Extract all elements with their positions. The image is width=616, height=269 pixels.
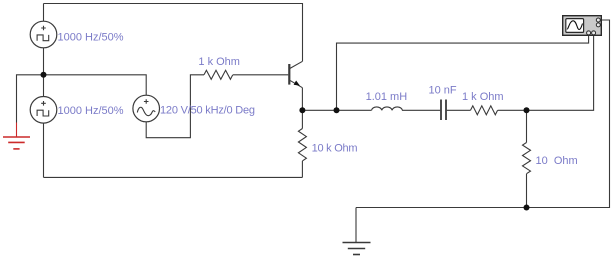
wire emitter node to node B — [302, 109, 336, 111]
wire V1 bottom lead to node A — [43, 48, 45, 75]
node emitter junction dot — [299, 107, 305, 113]
resistor R2 1k — [471, 106, 498, 115]
wire L1 to C1 — [402, 109, 440, 111]
wire bottom left rail — [44, 176, 303, 178]
inductor L1 — [372, 107, 403, 110]
node B junction dot — [334, 107, 340, 113]
wire node B to L1 — [337, 109, 372, 111]
svg-text:1 k Ohm: 1 k Ohm — [198, 56, 240, 68]
svg-text:10 nF: 10 nF — [429, 85, 457, 97]
svg-text:1.01 mH: 1.01 mH — [366, 91, 408, 103]
wire V1 top lead — [43, 4, 45, 22]
svg-text:1000 Hz/50%: 1000 Hz/50% — [58, 105, 124, 117]
capacitor C1 — [441, 100, 446, 121]
wire top rail from V1 to Q1 collector — [44, 4, 303, 62]
oscilloscope XSC1 — [563, 16, 602, 36]
pulse source V2 — [30, 97, 57, 124]
wire 10 Ohm top lead — [526, 110, 528, 142]
wire 10 Ohm bottom lead to node D — [526, 174, 528, 208]
wire node C to scope terminal B — [527, 35, 594, 110]
wire 10k top lead — [301, 110, 303, 128]
wire node A left to ground branch — [17, 75, 44, 123]
node D junction dot — [524, 205, 530, 211]
resistor R3 10k (emitter) — [298, 129, 306, 161]
wire V2 top lead — [43, 75, 45, 97]
sine source V3 — [133, 95, 160, 122]
wire R2 to node C — [498, 109, 527, 111]
node C junction dot — [524, 107, 530, 113]
transistor Q1 — [289, 61, 302, 87]
wire node B up to scope terminal A — [337, 35, 589, 110]
wire C1 to R2 — [447, 109, 471, 111]
wire 10k bottom lead — [301, 161, 303, 177]
ground (red) left — [3, 123, 30, 149]
resistor R4 10 Ohm — [523, 143, 531, 174]
wire bottom right rail — [356, 20, 610, 208]
wire V3 bottom loop to R1 left — [146, 75, 204, 138]
node A junction dot — [41, 72, 47, 78]
resistor R1 1k (base) — [204, 70, 233, 79]
svg-text:1000 Hz/50%: 1000 Hz/50% — [58, 32, 124, 44]
pulse source V1 — [30, 21, 57, 48]
svg-text:10 Ohm: 10 Ohm — [536, 155, 578, 167]
wire node A right to V3 top — [44, 75, 147, 95]
wire R1 right to Q1 base — [233, 74, 288, 76]
svg-text:120 V/50 kHz/0 Deg: 120 V/50 kHz/0 Deg — [160, 105, 255, 117]
svg-text:1 k Ohm: 1 k Ohm — [462, 91, 504, 103]
ground (black) bottom — [343, 208, 371, 255]
svg-text:10 k Ohm: 10 k Ohm — [312, 143, 358, 155]
wire Q1 emitter lead down — [301, 88, 303, 111]
wire V2 bottom lead — [43, 123, 45, 177]
